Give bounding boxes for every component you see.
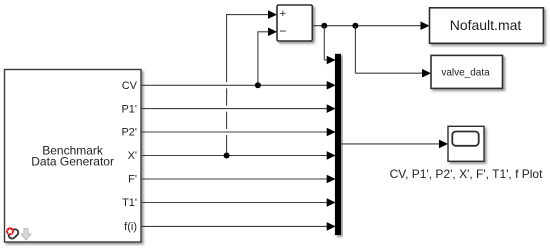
svg-text:T1': T1' [122,197,137,209]
wire: CV branch to sum minus input [257,32,268,86]
svg-text:X': X' [128,150,137,162]
svg-text:f(i): f(i) [124,221,137,233]
wire: sum output branch down to mux first input [324,26,328,60]
To File block: Nofault.mat [430,8,544,44]
wire f(i) [141,225,327,227]
mux block [335,54,341,235]
junction dot on CV line [255,82,261,88]
wire P1' [141,108,327,110]
svg-text:CV, P1', P2', X', F', T1', f P: CV, P1', P2', X', F', T1', f Plot [390,167,544,181]
badge: broken library link icon [6,227,20,239]
svg-text:CV: CV [122,80,138,92]
wire CV [141,84,327,86]
sum block [277,5,312,41]
wire: mux output to scope [341,143,439,145]
svg-text:Nofault.mat: Nofault.mat [450,17,522,33]
junction dot on X' line [224,153,230,159]
wire F' [141,178,327,180]
svg-text:+: + [280,8,286,20]
wire: sum output to Nofault.mat [312,25,421,27]
To Workspace block: valve_data [431,55,503,88]
junction dot on sum output (right) [352,23,358,29]
svg-text:−: − [279,24,286,38]
scope block [448,126,484,161]
wire X' [141,155,327,157]
wire: X' branch to sum plus input (vertical with crossing gaps) [226,15,269,156]
svg-text:valve_data: valve_data [441,68,490,79]
svg-text:P1': P1' [121,103,137,115]
subsystem block: Benchmark Data Generator [5,70,142,243]
svg-text:P2': P2' [121,127,137,139]
wire: sum output branch down to valve_data [355,26,422,73]
junction dot on sum output (left) [321,23,327,29]
wire T1' [141,202,327,204]
svg-text:F': F' [128,174,137,186]
wire P2' [141,131,327,133]
svg-text:Data Generator: Data Generator [31,155,114,169]
badge: gray down arrow [21,229,31,241]
